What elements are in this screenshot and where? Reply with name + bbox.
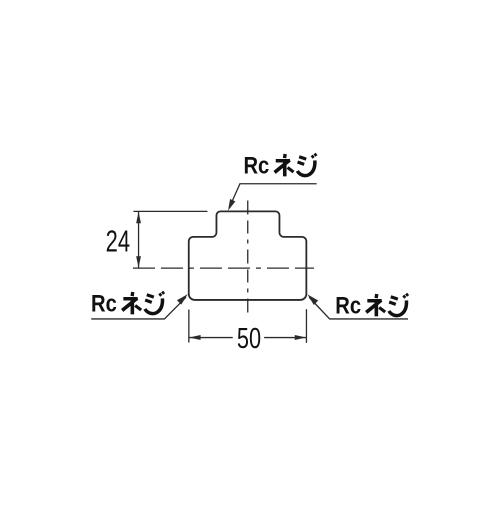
leader line top	[229, 184, 317, 208]
leader line bottom-left	[91, 297, 186, 319]
label Rc thread top : katakana ji	[297, 154, 316, 176]
dimension 50 extension line left	[188, 310, 190, 343]
dimension 50 line right segment	[264, 337, 306, 339]
vertical centerline	[247, 200, 249, 313]
dimension 24 arrow down	[136, 256, 141, 268]
leader line bottom-right	[309, 297, 408, 319]
svg-text:Rc: Rc	[335, 293, 361, 320]
dimension 50 extension line right	[305, 309, 307, 343]
dimension 50 arrow right	[295, 335, 307, 340]
label Rc thread bottom-right : katakana ne	[366, 294, 385, 316]
leader arrow top	[228, 199, 235, 211]
leader arrow bottom-right	[307, 294, 318, 305]
dimension 24 arrow up	[136, 212, 141, 224]
svg-text:Rc: Rc	[91, 291, 117, 318]
dimension 50 arrow left	[189, 335, 201, 340]
leader arrow bottom-left	[177, 294, 188, 305]
label Rc thread bottom-right : katakana ji	[389, 294, 408, 316]
tee fitting body outline	[189, 211, 307, 300]
horizontal centerline	[133, 267, 314, 269]
dimension 24 extension line	[133, 210, 207, 212]
label Rc thread bottom-left : katakana ne	[122, 292, 141, 314]
svg-text:Rc: Rc	[243, 153, 269, 180]
dimension 24 line	[138, 212, 140, 268]
label Rc thread top : katakana ne	[275, 154, 294, 176]
svg-text:24: 24	[106, 225, 130, 259]
dimension 50 line left segment	[189, 337, 233, 339]
svg-text:50: 50	[237, 323, 261, 355]
label Rc thread bottom-left : katakana ji	[145, 292, 164, 314]
